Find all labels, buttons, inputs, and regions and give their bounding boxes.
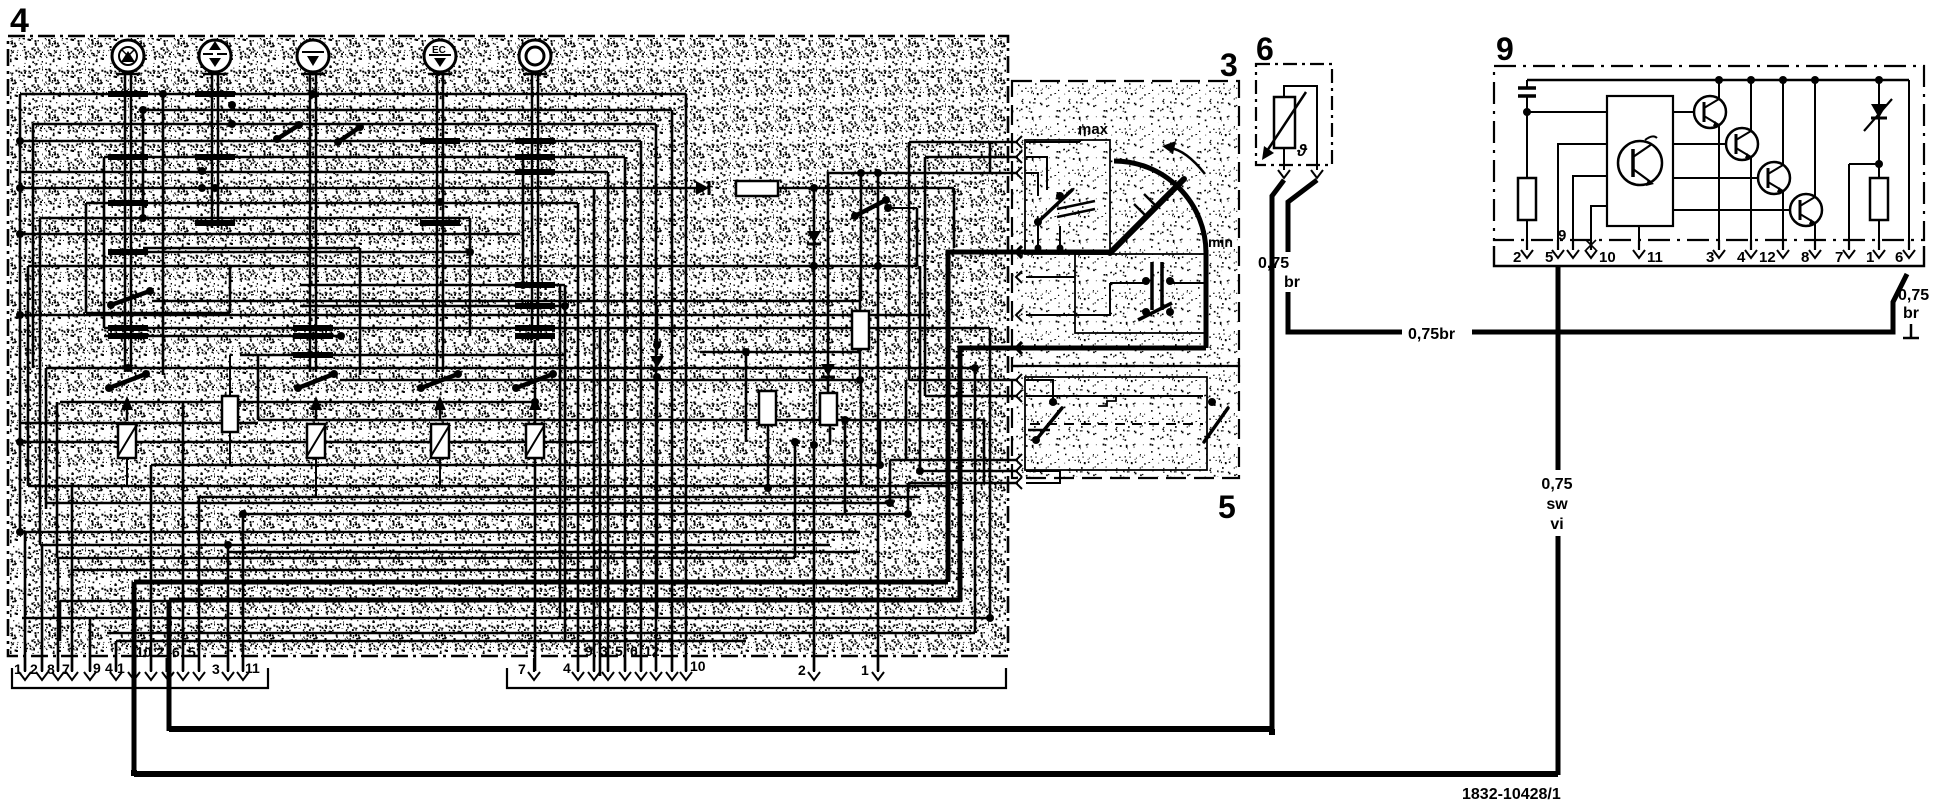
svg-text:5: 5 <box>188 644 196 660</box>
wire 0,75 thick from unit6 left pin <box>1272 180 1284 733</box>
capacitor C1 <box>1518 80 1536 112</box>
junction <box>139 106 147 114</box>
junction <box>515 325 555 331</box>
svg-text:6: 6 <box>1256 31 1274 67</box>
relay K4 coil <box>526 424 544 465</box>
wire <box>859 277 862 311</box>
wire <box>655 124 658 671</box>
svg-text:3: 3 <box>600 643 608 659</box>
wire <box>828 172 1018 175</box>
junction <box>124 364 132 372</box>
svg-text:4: 4 <box>1737 249 1746 266</box>
junction <box>228 101 236 109</box>
wire <box>1526 112 1528 178</box>
left connector pin numbers <box>14 644 260 677</box>
heavy bus upper <box>169 726 1274 732</box>
svg-text:ϑ: ϑ <box>1296 141 1308 160</box>
gauge max box <box>1025 140 1110 254</box>
junction <box>886 499 894 507</box>
junction <box>195 91 235 97</box>
svg-text:9: 9 <box>93 660 101 676</box>
terminal pin at x=641 <box>635 658 647 680</box>
junction <box>108 200 148 206</box>
junction <box>916 467 924 475</box>
junction <box>841 416 849 424</box>
svg-text:2: 2 <box>156 644 164 660</box>
unit 9 bottom bracket <box>1494 246 1924 266</box>
wire <box>656 375 659 618</box>
junction <box>139 214 147 222</box>
connector contact <box>1016 465 1022 477</box>
wire <box>908 482 1018 485</box>
relay K4 actuator arrow <box>529 396 541 421</box>
relay K2 actuator arrow <box>310 396 322 421</box>
indicator gauge G2 <box>199 40 231 74</box>
svg-text:9: 9 <box>585 643 593 659</box>
transistor Q1 in block <box>1618 136 1662 186</box>
junction <box>420 220 460 226</box>
junction <box>228 120 236 128</box>
svg-text:br: br <box>1284 274 1300 291</box>
unit 4 left connector bracket <box>12 668 268 688</box>
junction <box>436 198 444 206</box>
terminal pin at x=814 <box>808 658 820 680</box>
wire <box>142 110 145 218</box>
heavy wire continues <box>1556 536 1561 775</box>
wire pin11 <box>1638 226 1640 248</box>
junction <box>791 438 799 446</box>
contact pair symbol <box>1110 262 1207 320</box>
wire <box>20 422 258 425</box>
junction <box>293 352 333 358</box>
svg-text:4: 4 <box>105 660 113 676</box>
wire 0,75br continues <box>1288 292 1402 332</box>
relay K1 actuator arrow <box>121 396 133 421</box>
junction <box>108 325 148 331</box>
wire <box>540 187 700 190</box>
svg-text:7: 7 <box>518 661 526 677</box>
wire <box>240 354 565 357</box>
transistor Q2 <box>1673 96 1726 128</box>
indicator gauge G4 <box>424 40 456 74</box>
svg-text:3: 3 <box>1220 47 1238 83</box>
wire <box>151 464 880 467</box>
wire <box>1026 395 1203 397</box>
resistor R3 <box>820 393 837 425</box>
svg-text:3: 3 <box>1706 249 1714 266</box>
wire <box>228 551 860 554</box>
unit 9 terminal 4 <box>1745 240 1757 258</box>
resistor R1 <box>736 181 778 196</box>
wire <box>257 355 260 420</box>
meter needle <box>1110 179 1184 253</box>
unit 9 dash-dot border <box>1494 66 1924 240</box>
wire <box>829 425 832 445</box>
unit 9 terminal 3 <box>1713 240 1725 258</box>
svg-text:1: 1 <box>1866 249 1874 266</box>
wire <box>879 420 882 465</box>
wire <box>593 188 596 671</box>
indicator gauge G5 <box>519 40 551 74</box>
unit 3 background texture <box>1013 82 1238 477</box>
junction <box>742 348 750 356</box>
wire <box>1848 164 1850 248</box>
wire <box>20 233 520 236</box>
terminal pin at x=58 <box>52 658 64 680</box>
wire <box>890 459 1018 462</box>
wire <box>656 306 659 355</box>
unit 5 left switch <box>1028 398 1062 444</box>
junction <box>986 614 994 622</box>
wire <box>1026 283 1110 315</box>
junction <box>108 249 148 255</box>
junction <box>239 510 247 518</box>
connector contact <box>1016 477 1022 489</box>
wire <box>827 378 830 393</box>
svg-text:8: 8 <box>1801 249 1809 266</box>
junction <box>16 230 24 238</box>
terminal pin at x=686 <box>680 658 692 680</box>
wire <box>20 93 686 96</box>
wire <box>1026 470 1060 483</box>
terminal pin at x=608 <box>602 658 614 680</box>
wire <box>162 94 165 375</box>
wire <box>953 188 956 248</box>
wire <box>104 335 341 338</box>
terminal pin at x=578 <box>572 658 584 680</box>
gauge G2 stem wires <box>212 74 218 228</box>
svg-text:1832-10428/1: 1832-10428/1 <box>1462 786 1561 800</box>
relay K3 coil <box>431 424 449 486</box>
svg-text:8: 8 <box>47 661 55 677</box>
heavy bus lower <box>134 771 1558 777</box>
switch S3 <box>294 370 338 392</box>
unit 9 terminal 10 <box>1585 240 1597 258</box>
step cam symbol <box>1098 396 1125 406</box>
x mark on pin 10 <box>1586 240 1596 250</box>
sensor arrow <box>1262 92 1306 160</box>
heavy wire run B <box>169 598 960 603</box>
junction <box>810 441 818 449</box>
wire <box>243 513 908 516</box>
wire <box>908 142 911 380</box>
wire <box>20 171 608 174</box>
unit 4 background texture <box>10 38 1006 654</box>
wire <box>300 305 565 308</box>
meter needle arc scale <box>1114 161 1206 253</box>
direction arrow <box>1170 148 1205 174</box>
junction <box>309 90 317 98</box>
wire <box>109 251 470 254</box>
relay K2 coil <box>307 424 325 497</box>
unit 9 terminal pin <box>1567 240 1579 258</box>
terminal pin at x=672 <box>666 658 678 680</box>
svg-text:2: 2 <box>798 662 806 678</box>
wire <box>925 156 1018 159</box>
unit 4 enclosure dash-dot border <box>8 36 1008 656</box>
relay K1 coil <box>118 424 136 486</box>
svg-text:min: min <box>1208 234 1233 250</box>
diode D4 <box>650 356 664 369</box>
wire pin10 to block <box>1591 206 1607 248</box>
gauge G5 stem wires <box>532 74 538 340</box>
heavy wire 0,75swvi from pin 5 <box>1556 266 1561 470</box>
terminal pin at x=534 <box>528 658 540 680</box>
ground stub <box>1903 324 1919 338</box>
wire <box>229 432 231 465</box>
wire <box>242 514 245 671</box>
wire <box>1527 111 1607 113</box>
wire <box>57 557 795 560</box>
wire <box>143 247 360 250</box>
connector contact <box>1016 136 1022 148</box>
wire pin5 to block <box>1558 144 1607 248</box>
wire <box>104 156 625 159</box>
junction <box>561 302 569 310</box>
svg-text:12: 12 <box>644 643 660 659</box>
diode D2 <box>807 188 821 266</box>
needle cross ticks <box>1134 194 1158 218</box>
terminal pin at x=878 <box>872 658 884 680</box>
node <box>1523 108 1531 116</box>
junction <box>108 154 148 160</box>
wire <box>671 110 674 671</box>
terminal pin at x=656 <box>650 658 662 680</box>
wire <box>39 218 42 545</box>
wire <box>229 266 232 313</box>
transistor Q5 <box>1673 194 1822 226</box>
junction <box>16 438 24 446</box>
wire <box>745 352 748 442</box>
unit 9 terminal 12 <box>1777 240 1789 258</box>
wire <box>700 351 861 354</box>
wire <box>40 544 830 547</box>
wire <box>877 173 880 671</box>
mechanical link dashed <box>1030 423 1203 425</box>
unit 9 supply bus <box>1527 79 1909 82</box>
svg-text:0,75: 0,75 <box>1898 287 1929 304</box>
wire <box>85 203 88 313</box>
terminal pin at x=42 <box>36 658 48 680</box>
unit 6 pin <box>1311 170 1323 178</box>
svg-text:0,75br: 0,75br <box>1408 326 1455 343</box>
wire <box>20 314 930 317</box>
wire <box>107 632 975 635</box>
switch S1 <box>107 287 154 309</box>
wire <box>909 379 1018 382</box>
wire <box>1878 220 1880 248</box>
junction <box>876 461 884 469</box>
wire <box>989 328 992 618</box>
wire <box>20 441 594 444</box>
svg-text:br: br <box>1903 305 1919 322</box>
wire <box>564 285 567 641</box>
wire <box>860 380 863 486</box>
wire <box>28 485 948 488</box>
indicator gauge G1 <box>112 40 144 74</box>
svg-text:6: 6 <box>1895 249 1903 266</box>
junction <box>856 376 864 384</box>
junction <box>108 333 148 339</box>
junction <box>515 282 555 288</box>
switch S5 <box>512 370 557 392</box>
svg-text:12: 12 <box>1759 249 1776 266</box>
junction <box>515 303 555 309</box>
wire <box>104 327 990 330</box>
svg-text:7: 7 <box>1835 249 1843 266</box>
wire 0,75br to unit 9 pin 6 <box>1472 274 1907 332</box>
wire <box>794 442 797 558</box>
wire <box>258 419 984 422</box>
resistor R4 <box>759 391 776 425</box>
unit 9 terminal 7 <box>1843 240 1855 258</box>
svg-text:1: 1 <box>117 660 125 676</box>
transistor Q4 <box>1673 162 1790 194</box>
wire <box>813 188 816 671</box>
gauge G1 stem wires <box>125 74 131 372</box>
wire <box>640 141 643 671</box>
switch S6 <box>273 121 303 143</box>
wire <box>974 368 977 633</box>
wire <box>827 173 830 365</box>
resistor R5 <box>222 396 238 432</box>
wire <box>300 284 565 287</box>
zener diode Z1 <box>1864 80 1892 164</box>
wire <box>198 497 201 671</box>
junction <box>108 91 148 97</box>
connector contact <box>1016 374 1022 386</box>
wire <box>534 340 537 671</box>
wire <box>924 157 927 396</box>
wire <box>60 401 535 404</box>
terminal pin at x=625 <box>619 658 631 680</box>
unit 9 terminal 2 <box>1521 240 1533 258</box>
wire <box>1283 148 1285 170</box>
junction <box>16 137 24 145</box>
wire <box>1026 380 1053 402</box>
wire <box>182 402 185 671</box>
wire <box>86 312 230 315</box>
wire <box>143 109 672 112</box>
wire <box>41 545 44 671</box>
junction <box>519 281 527 289</box>
junction <box>515 154 555 160</box>
unit 5 switch box <box>1025 377 1207 470</box>
connector contact <box>1016 454 1022 466</box>
relay K3 actuator arrow <box>434 396 446 421</box>
wire <box>152 300 861 303</box>
wire <box>59 601 62 641</box>
wire <box>22 531 860 534</box>
wire <box>685 94 688 671</box>
wire <box>32 124 35 368</box>
wire <box>57 558 60 671</box>
wire <box>1878 164 1880 178</box>
wire <box>905 380 908 460</box>
junction <box>224 541 232 549</box>
terminal pin at x=228 <box>222 658 234 680</box>
wire <box>56 402 59 558</box>
wire <box>1026 470 1060 472</box>
junction <box>810 262 818 270</box>
wire <box>46 502 890 505</box>
junction <box>531 398 539 406</box>
wire <box>1908 80 1910 248</box>
junction <box>515 333 555 339</box>
wire <box>27 266 30 486</box>
heavy wire run A <box>134 580 948 585</box>
junction <box>16 528 24 536</box>
svg-text:max: max <box>1078 121 1109 138</box>
junction <box>904 510 912 518</box>
wire <box>71 570 74 600</box>
connector contact <box>1016 342 1022 354</box>
resistor R7 <box>1870 178 1888 220</box>
junction <box>874 262 882 270</box>
svg-text:1: 1 <box>14 661 22 677</box>
svg-text:0,75: 0,75 <box>1541 476 1572 493</box>
junction <box>293 325 333 331</box>
connector contact <box>1016 151 1022 163</box>
diode D1 <box>560 181 709 195</box>
wire <box>776 187 954 190</box>
unit 3 lower contact box <box>1075 254 1207 333</box>
wire <box>767 425 770 488</box>
wire <box>72 569 600 572</box>
wire <box>40 217 470 220</box>
wire <box>116 640 746 643</box>
svg-text:2: 2 <box>1513 249 1521 266</box>
wire <box>889 460 892 503</box>
terminal pin at x=72 <box>66 658 78 680</box>
heavy wire A drop to terminal <box>132 582 137 772</box>
wire <box>1026 276 1075 278</box>
wire <box>227 545 230 671</box>
svg-text:4: 4 <box>10 2 29 40</box>
wire <box>22 617 990 620</box>
switch S4 <box>417 370 462 392</box>
wire <box>624 157 627 671</box>
svg-text:9: 9 <box>1496 31 1514 67</box>
junction <box>195 220 235 226</box>
wire <box>24 532 27 671</box>
terminal pin at x=134 <box>128 658 140 680</box>
wire <box>103 157 106 328</box>
wire pin to block <box>1573 176 1607 248</box>
svg-text:11: 11 <box>1647 249 1663 266</box>
wire <box>20 140 641 143</box>
gauge G3 stem wires <box>310 74 316 372</box>
connector contact <box>1016 271 1022 283</box>
junction <box>293 333 333 339</box>
svg-text:9: 9 <box>1558 227 1566 244</box>
unit 3 dashed border <box>1012 81 1239 366</box>
svg-text:6: 6 <box>172 644 180 660</box>
svg-text:sw: sw <box>1546 496 1568 513</box>
unit 9 terminal 8 <box>1809 240 1821 258</box>
wire 0,75br from unit6 right pin <box>1288 180 1317 252</box>
wire <box>559 285 562 618</box>
connector contact <box>1016 390 1022 402</box>
svg-text:10: 10 <box>690 658 706 674</box>
indicator gauge G3 <box>297 40 329 74</box>
junction <box>466 248 474 256</box>
svg-text:1: 1 <box>861 662 869 678</box>
collector wires <box>1719 80 1815 248</box>
wire <box>577 203 580 671</box>
wire <box>150 465 153 671</box>
wire <box>859 349 862 380</box>
